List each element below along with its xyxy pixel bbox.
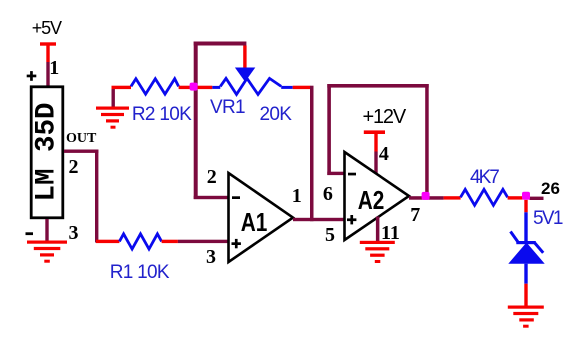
wire pin2 OUT horizontal <box>64 150 98 153</box>
label 20K <box>260 105 292 124</box>
node junction R2/VR1/feedback <box>190 83 198 91</box>
label pin 26 <box>541 180 560 197</box>
wire A2 pin4 supply <box>374 152 377 177</box>
wire A2 pin6 input <box>327 172 345 175</box>
label pin 6 A2 <box>323 184 333 204</box>
label VR1 <box>210 98 245 117</box>
minus sign LM35D <box>26 232 34 235</box>
wire VR1 right lead <box>293 86 311 89</box>
label R2 10K <box>132 105 191 124</box>
wire VR1 to A1 output vertical <box>310 86 314 222</box>
ground R2 <box>96 107 129 129</box>
resistor R2 <box>131 79 191 94</box>
ground A2 <box>360 241 395 263</box>
wire A1 output to A2 pin5 <box>293 218 346 221</box>
label pin 5 A2 <box>325 225 335 245</box>
ground LM35D <box>27 241 67 263</box>
label pin 7 A2 <box>410 205 420 225</box>
node junction zener <box>522 192 530 200</box>
wire A2 output <box>409 196 444 200</box>
wire feedback loop A1 left vertical <box>194 42 198 200</box>
wire zener top lead <box>524 200 527 242</box>
wire VR1 wiper stem <box>243 46 246 69</box>
op-amp A2 <box>345 152 410 240</box>
wire 4K7 left lead <box>444 196 461 199</box>
resistor R3 4K7 <box>461 189 523 205</box>
label pin 2 <box>69 157 79 177</box>
label A1 <box>241 209 268 235</box>
wire A2 pin11 to ground <box>376 217 380 242</box>
label pin 3 <box>69 223 79 243</box>
wire A2 feedback left vertical <box>327 84 331 175</box>
wire R1 to A1 pin3 <box>178 240 229 243</box>
wire zener bottom lead <box>524 264 527 306</box>
label pin 4 A2 <box>379 144 389 164</box>
wire pin1 LM35D <box>46 62 49 86</box>
wire pin2 OUT vertical <box>95 150 98 243</box>
wire A2 feedback top horizontal <box>327 84 428 88</box>
ground zener <box>508 306 544 328</box>
resistor R1 <box>119 234 178 249</box>
zener diode D1 5V1 <box>508 232 544 264</box>
wire pin3 LM35D to ground <box>45 219 48 242</box>
wire R1 left lead <box>96 240 119 243</box>
label pin 11 A2 <box>381 223 400 243</box>
label +12V <box>363 107 405 127</box>
label pin 1 A1 <box>292 186 302 206</box>
label 5V1 <box>533 209 562 228</box>
potentiometer VR1 wiper arrow <box>235 68 255 82</box>
label pin 2 A1 <box>207 167 217 187</box>
wire A2 feedback right vertical <box>425 84 429 196</box>
label OUT <box>66 132 96 146</box>
label A2 <box>358 187 385 213</box>
wire to pin 26 <box>530 197 544 200</box>
label 4K7 <box>470 168 498 187</box>
label LM 35D <box>33 102 61 201</box>
wire feedback loop A1 top horizontal <box>194 42 247 46</box>
wire A1 pin2 input <box>194 196 229 199</box>
sensor U1 LM35D body <box>31 87 63 218</box>
wire R2 left corner <box>112 86 132 107</box>
label R1 10K <box>110 263 169 282</box>
node junction A2 output <box>422 192 430 200</box>
power +12V symbol <box>364 130 385 151</box>
wire VR1 left lead <box>195 86 212 89</box>
label +5V <box>32 19 61 37</box>
label pin 3 A1 <box>206 247 216 267</box>
potentiometer VR1 track <box>212 78 292 94</box>
op-amp A1 <box>229 173 294 262</box>
label pin 1 <box>49 58 59 78</box>
power +5V symbol <box>40 42 56 62</box>
plus sign LM35D <box>27 71 37 81</box>
